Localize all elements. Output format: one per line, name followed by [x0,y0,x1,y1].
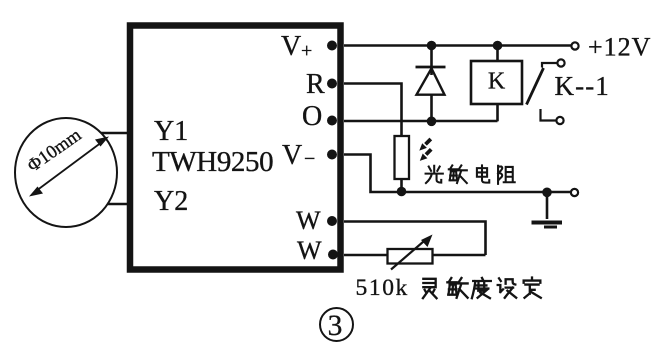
svg-text:O: O [302,101,322,132]
svg-text:+: + [301,40,312,62]
svg-text:Y2: Y2 [154,186,188,217]
svg-text:K: K [488,69,506,95]
svg-text:TWH9250: TWH9250 [152,146,273,178]
svg-text:W: W [297,236,322,265]
svg-text:Y1: Y1 [154,116,188,147]
svg-text:3: 3 [328,310,343,342]
svg-text:K--1: K--1 [555,71,610,101]
svg-text:510k: 510k [356,275,409,301]
svg-text:+12V: +12V [588,33,651,62]
svg-text:V: V [281,31,301,62]
svg-text:W: W [296,206,321,235]
svg-text:−: − [304,148,315,170]
svg-text:R: R [306,69,325,100]
svg-text:V: V [282,140,302,171]
